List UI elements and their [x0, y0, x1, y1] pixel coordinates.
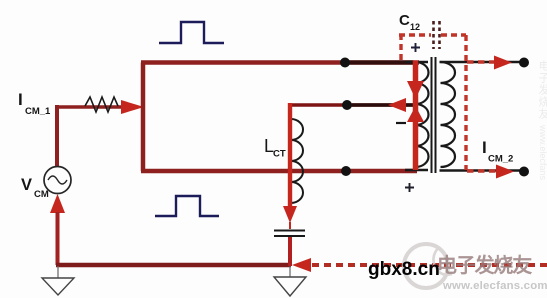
- label C_12: [399, 12, 420, 32]
- L_CT red current line: [288, 103, 292, 207]
- capacitor plates: [274, 230, 305, 232]
- dashed CM path: left stub: [399, 35, 402, 60]
- big loop top wire: [141, 60, 419, 65]
- junction node top: [340, 58, 350, 68]
- plus label bottom: [405, 183, 414, 192]
- resistor R zigzag: [85, 97, 118, 112]
- label V_CM: [21, 176, 49, 200]
- secondary top wire: [440, 61, 525, 63]
- transformer primary top black wire: [405, 61, 428, 63]
- transformer primary winding U1: [416, 62, 429, 167]
- arrow into node (I_CM_1): [121, 100, 144, 114]
- svg-text:CM: CM: [34, 189, 49, 200]
- svg-text:www.elecfans.com: www.elecfans.com: [442, 280, 547, 292]
- watermark logo swirl: [404, 244, 452, 288]
- plus label top: [411, 43, 420, 52]
- label L_CT: [264, 136, 286, 160]
- svg-text:电子发烧友: 电子发烧友: [537, 60, 547, 120]
- transformer core: [431, 57, 433, 173]
- dashed CM path: top left segment: [399, 33, 431, 36]
- svg-text:CT: CT: [273, 149, 286, 160]
- terminal dot top: [519, 58, 529, 68]
- terminal dot bottom: [519, 167, 529, 177]
- svg-text:I: I: [482, 138, 487, 157]
- inductor L_CT coil: [291, 119, 303, 203]
- svg-text:12: 12: [410, 22, 420, 32]
- svg-text:V: V: [21, 176, 32, 194]
- svg-text:www.elecfans: www.elecfans: [538, 124, 547, 181]
- label I_CM_2: [482, 138, 513, 165]
- arrow down to center tap: [407, 81, 424, 99]
- big loop bottom wire: [141, 169, 417, 174]
- wire capacitor to bottom: [288, 237, 292, 266]
- parasitic capacitor C12 dashed plates: [432, 21, 435, 49]
- pulse waveform top: [159, 22, 224, 43]
- junction node middle: [342, 100, 352, 110]
- bottom dashed return wire: [312, 263, 547, 267]
- svg-text:C: C: [399, 12, 410, 29]
- wire bottom left: [56, 263, 291, 267]
- svg-text:CM_2: CM_2: [488, 154, 513, 165]
- ground left: [57, 266, 59, 278]
- ground middle: [289, 266, 291, 278]
- svg-text:I: I: [18, 90, 23, 109]
- svg-text:电子发烧友: 电子发烧友: [437, 253, 532, 277]
- minus label: [396, 122, 406, 124]
- source V_CM: [44, 167, 71, 194]
- wire top dark segment: [349, 60, 414, 64]
- wire resistor branch: [57, 105, 122, 109]
- transformer primary bottom black wire: [405, 169, 428, 171]
- svg-text:gbx8.cn: gbx8.cn: [368, 259, 440, 280]
- junction node lower: [341, 166, 351, 176]
- dashed arrow out bottom: [467, 169, 500, 173]
- transformer primary red current line: [413, 61, 419, 171]
- arrow left at ground junction: [292, 258, 311, 272]
- dashed CM path: top right segment: [441, 33, 466, 36]
- middle wire (center tap): [289, 103, 413, 106]
- transformer secondary winding: [441, 62, 456, 167]
- arrow up to center tap: [407, 106, 424, 122]
- dashed CM path: right vertical: [464, 35, 467, 170]
- svg-text:CM_1: CM_1: [25, 106, 51, 117]
- arrow down to capacitor: [283, 206, 297, 223]
- secondary bottom wire: [440, 169, 525, 171]
- dashed arrow out top: [467, 60, 497, 64]
- watermark right edge vertical: [537, 60, 547, 181]
- wire V_CM top: [55, 105, 59, 167]
- arrow into source (up): [50, 194, 65, 213]
- arrow left on middle wire: [388, 98, 406, 112]
- big loop left vertical wire: [141, 63, 146, 172]
- pulse waveform middle: [155, 196, 219, 216]
- label I_CM_1: [18, 90, 51, 117]
